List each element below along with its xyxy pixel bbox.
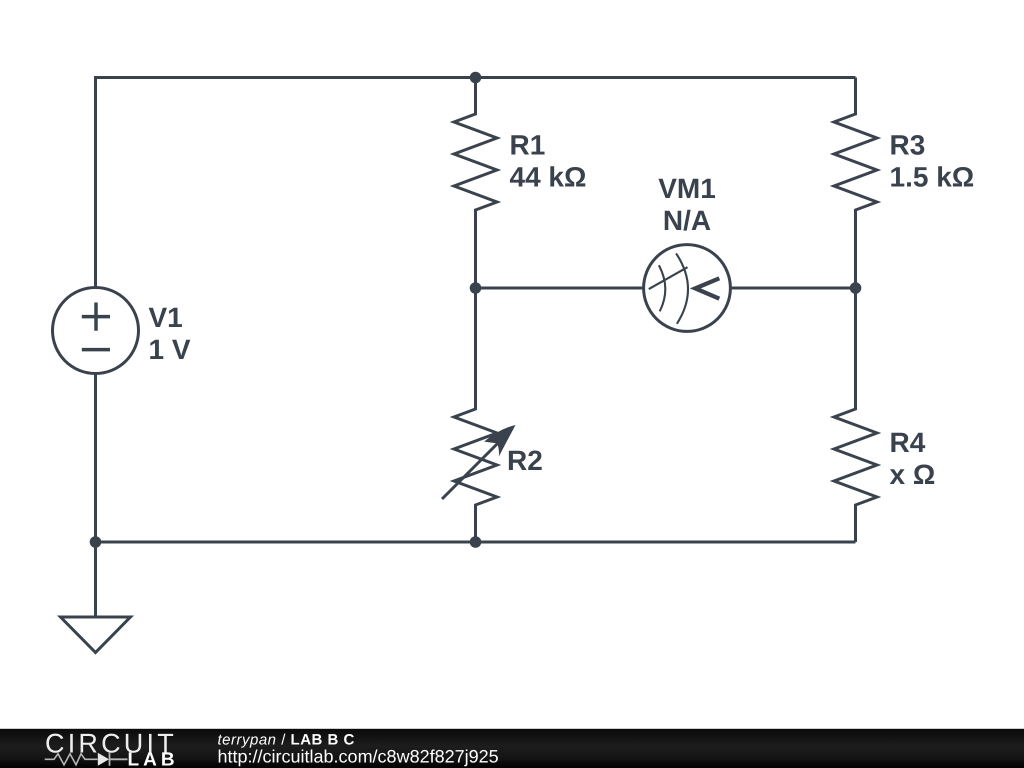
svg-text:http://circuitlab.com/c8w82f82: http://circuitlab.com/c8w82f827j925 bbox=[218, 746, 499, 766]
svg-text:R3: R3 bbox=[890, 130, 926, 161]
node ground junction bbox=[90, 536, 102, 548]
logo diode bbox=[98, 753, 109, 766]
resistor R4 bbox=[834, 288, 877, 542]
voltage source V1 bbox=[53, 288, 139, 374]
wire bridge left (node A to VM1) bbox=[476, 287, 644, 290]
svg-text:LAB: LAB bbox=[128, 750, 179, 768]
svg-text:R1: R1 bbox=[510, 130, 546, 161]
wire bottom rail bbox=[96, 374, 856, 618]
svg-text:N/A: N/A bbox=[663, 205, 711, 236]
voltmeter VM1 bbox=[644, 245, 731, 332]
wire bridge right (VM1 to node B) bbox=[730, 287, 855, 290]
logo resistor squiggle bbox=[45, 754, 98, 765]
svg-text:V1: V1 bbox=[149, 302, 183, 333]
node B (R3/R4/VM1) bbox=[850, 282, 862, 294]
resistor R1 bbox=[454, 78, 497, 289]
svg-text:1.5 kΩ: 1.5 kΩ bbox=[890, 162, 975, 193]
wire top rail from V1 to R3 bbox=[96, 78, 856, 288]
resistor R2 (variable) bbox=[442, 288, 516, 542]
svg-text:x Ω: x Ω bbox=[890, 459, 936, 490]
svg-text:44 kΩ: 44 kΩ bbox=[510, 162, 587, 193]
svg-text:VM1: VM1 bbox=[658, 173, 716, 204]
node top (R1 / top rail) bbox=[470, 72, 482, 84]
ground bbox=[61, 617, 131, 653]
svg-text:R4: R4 bbox=[890, 427, 926, 458]
svg-text:1 V: 1 V bbox=[149, 334, 191, 365]
resistor R3 bbox=[834, 78, 877, 289]
svg-text:R2: R2 bbox=[507, 445, 543, 476]
node A (R1/R2/VM1) bbox=[470, 282, 482, 294]
node bottom (R2 / bottom rail) bbox=[470, 536, 482, 548]
